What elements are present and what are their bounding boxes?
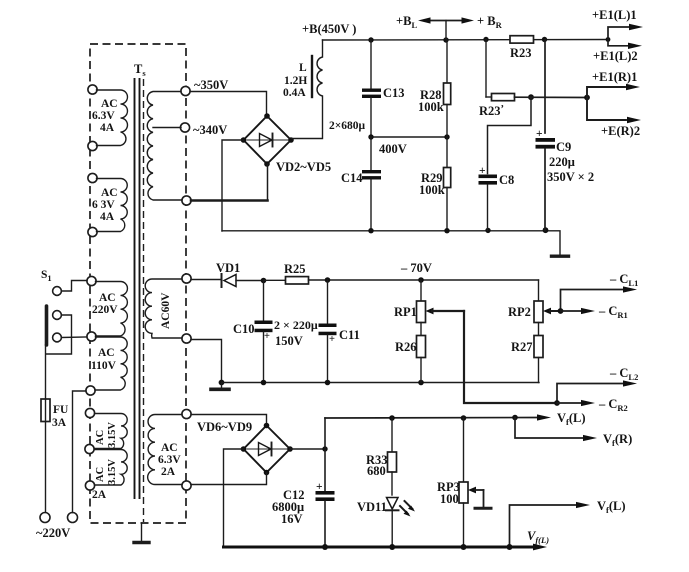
svg-text:400V: 400V (379, 142, 407, 156)
svg-text:+E1(L)2: +E1(L)2 (593, 49, 638, 63)
winding AC 3.15V (lower heater) (85, 450, 127, 502)
winding AC 6.3V 4A (upper) (88, 85, 128, 151)
svg-text:100k: 100k (418, 100, 444, 114)
wire AC60V bottom to ground (191, 340, 222, 383)
wire mains right to 110V bottom tap (73, 391, 87, 513)
svg-text:~350V: ~350V (194, 78, 228, 92)
jog wire R23' output down to C8 (488, 97, 532, 173)
diode VD1 (216, 261, 263, 287)
capacitor C13 (362, 40, 405, 137)
winding AC 220V (87, 276, 128, 341)
Vf(R) output (515, 418, 632, 449)
winding HV secondary 350V (147, 86, 191, 205)
node C10 top (261, 278, 267, 284)
capacitor C14 (341, 137, 381, 231)
bold bias wire RP1 wiper to -C outputs (464, 311, 557, 403)
svg-text:AC60V: AC60V (160, 292, 172, 329)
wire AC60V top to VD1 (191, 279, 221, 281)
svg-text:RP2: RP2 (508, 305, 531, 319)
middle ground rail (222, 380, 540, 386)
svg-text:2 × 220μ: 2 × 220μ (274, 318, 318, 332)
resistor R27 (511, 323, 543, 383)
switch S1 contacts and blade (47, 287, 62, 345)
svg-text:R26: R26 (395, 340, 417, 354)
svg-text:C8: C8 (499, 173, 514, 187)
wire bridge2 plus to C12 line (290, 448, 325, 450)
svg-text:+: + (264, 331, 270, 342)
winding AC 6.3V 4A (lower) (88, 173, 127, 236)
node E1L split (606, 37, 611, 42)
bottom bold rail (224, 544, 548, 551)
wire bridge2 bottom to 6.3V/2A bottom (191, 473, 267, 485)
transformer enclosure dashed box (90, 44, 186, 523)
svg-text:– 70V: – 70V (400, 261, 432, 275)
svg-text:L: L (299, 62, 307, 74)
node C13 top (368, 37, 373, 42)
capacitor C12 6800u 16V (272, 418, 335, 547)
wire switch mid contact to fuse line (46, 315, 72, 354)
svg-text:VD1: VD1 (216, 261, 240, 275)
Vf(L) upper output arrow (537, 414, 551, 420)
top section ground rail (222, 227, 560, 255)
svg-text:2A: 2A (92, 489, 107, 501)
svg-text:C11: C11 (339, 328, 360, 342)
svg-text:2A: 2A (161, 466, 176, 478)
-CL1 output (561, 272, 639, 311)
-70V rail (309, 261, 539, 283)
svg-text:+E1(L)1: +E1(L)1 (592, 8, 637, 22)
ground symbol (middle section) (211, 383, 229, 390)
winding AC 110V (86, 337, 127, 395)
svg-text:350V × 2: 350V × 2 (547, 170, 594, 184)
svg-text:C10: C10 (233, 322, 255, 336)
svg-text:100k: 100k (419, 183, 445, 197)
wire R23 output down to C9 (544, 40, 546, 134)
svg-text:680: 680 (367, 464, 386, 478)
svg-text:+E1(R)1: +E1(R)1 (592, 70, 637, 84)
svg-text:4A: 4A (100, 211, 115, 223)
svg-text:+: + (329, 334, 335, 345)
svg-text:6 3V: 6 3V (92, 199, 115, 211)
svg-text:3.15V: 3.15V (107, 459, 118, 485)
svg-text:110V: 110V (91, 360, 117, 372)
node R23' output (528, 94, 534, 100)
Vf(L) lower output (510, 499, 626, 547)
svg-text:6.3V: 6.3V (92, 110, 115, 122)
svg-text:150V: 150V (275, 334, 303, 348)
ground symbol (top section) (552, 255, 569, 258)
svg-text:~340V: ~340V (193, 123, 227, 137)
node ground mid (219, 380, 225, 386)
wire switch top contact to 220V tap (62, 281, 88, 292)
svg-text:2×680μ: 2×680μ (329, 120, 366, 132)
svg-text:R23: R23 (510, 46, 532, 60)
wire 350V tap to bridge top (190, 92, 267, 114)
svg-text:100: 100 (440, 492, 459, 506)
mains terminal left (40, 513, 50, 523)
svg-text:FU: FU (53, 404, 69, 416)
svg-text:R25: R25 (284, 262, 306, 276)
wire R23' output to E1(R) node (crosses C9 line) (515, 96, 588, 98)
resistor R26 (395, 323, 426, 383)
mid link wire with 400V (368, 134, 449, 156)
mains terminal right (68, 513, 78, 523)
+E1(L)1 +E1(L)2 output branches (592, 8, 643, 63)
svg-text:R27: R27 (511, 340, 533, 354)
capacitor C8 (479, 165, 515, 230)
wire 6.3V/2A top to bridge2 (191, 415, 267, 424)
node BL/BR stub (443, 37, 448, 42)
wire switch lower contact to 110V tap (62, 336, 88, 339)
potentiometer RP3 100 (437, 418, 491, 547)
fuse FU 3A (41, 345, 69, 513)
potentiometer RP2 (508, 280, 561, 323)
svg-text:AC: AC (101, 98, 118, 110)
svg-text:C14: C14 (341, 171, 363, 185)
potentiometer RP1 (394, 280, 464, 323)
svg-text:+B(450V ): +B(450V ) (302, 22, 356, 36)
svg-text:VD2~VD5: VD2~VD5 (276, 160, 331, 174)
capacitor C10 (233, 281, 273, 383)
svg-text:1.2H: 1.2H (284, 75, 307, 87)
transformer shield dashed line (143, 79, 145, 522)
svg-text:AC: AC (161, 442, 178, 454)
resistor R23 (510, 36, 534, 60)
resistor R33 680 (366, 418, 397, 495)
svg-text:R23ʼ: R23ʼ (479, 104, 504, 118)
svg-text:220μ: 220μ (549, 155, 575, 169)
LED VD11 (357, 498, 415, 547)
svg-text:220V: 220V (92, 304, 118, 316)
svg-text:6.3V: 6.3V (158, 454, 181, 466)
resistor R25 (264, 262, 309, 284)
svg-text:RP1: RP1 (394, 305, 417, 319)
inductor L 1.2H 0.4A (283, 40, 323, 139)
svg-text:AC: AC (95, 467, 106, 482)
resistor R28 100k (418, 40, 451, 137)
svg-text:Vf(L): Vf(L) (597, 499, 626, 515)
transformer core (135, 79, 140, 498)
bridge rectifier VD2~VD5 (241, 113, 294, 167)
svg-text:Vf(R): Vf(R) (603, 432, 632, 448)
capacitor C9 220u 350Vx2 (536, 128, 595, 230)
Vf top rail (325, 415, 537, 421)
winding AC 3.15V (upper heater) (85, 408, 127, 453)
svg-text:~220V: ~220V (36, 526, 70, 540)
svg-text:3.15V: 3.15V (107, 422, 118, 448)
svg-text:4A: 4A (100, 122, 115, 134)
-CL2 output (557, 366, 638, 403)
svg-text:+E(R)2: +E(R)2 (601, 124, 640, 138)
svg-text:16V: 16V (281, 512, 303, 526)
winding AC 6.3V 2A (148, 409, 191, 490)
svg-text:3A: 3A (52, 417, 67, 429)
+BL +BR arrows (396, 14, 503, 40)
svg-text:AC: AC (99, 292, 116, 304)
capacitor C11 (319, 280, 360, 383)
svg-text:VD6~VD9: VD6~VD9 (197, 420, 252, 434)
wire bridge2 minus to bottom rail (224, 449, 244, 546)
winding AC60V (145, 274, 191, 343)
resistor R29 100k (419, 137, 451, 231)
svg-text:0.4A: 0.4A (283, 87, 306, 99)
svg-text:Vf(L): Vf(L) (557, 411, 586, 427)
+B rail (top) (323, 39, 609, 42)
chassis ground under core (134, 523, 149, 543)
bold wire HV bottom tap to bridge bottom (191, 164, 268, 201)
svg-text:AC: AC (95, 430, 106, 445)
bridge rectifier VD6~VD9 (241, 423, 293, 476)
svg-text:AC: AC (101, 187, 118, 199)
resistor R23' (479, 40, 515, 119)
-CR2 output (554, 397, 628, 413)
svg-text:VD11: VD11 (357, 500, 387, 514)
node R23 out (542, 37, 547, 42)
svg-text:C9: C9 (556, 140, 571, 154)
svg-text:AC: AC (98, 347, 115, 359)
-CR1 output (558, 304, 628, 320)
svg-text:C13: C13 (383, 86, 405, 100)
wire bridge minus to ground rail (222, 140, 244, 231)
+E1(R)1 +E(R)2 output branches (584, 70, 641, 138)
node R23' branch (483, 37, 488, 42)
